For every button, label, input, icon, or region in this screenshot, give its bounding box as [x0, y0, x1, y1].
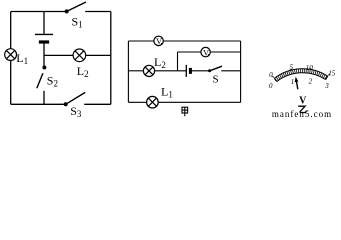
- scale numbers outer: [269, 64, 336, 79]
- svg-text:manfen5.com: manfen5.com: [272, 109, 332, 118]
- switch S2: [37, 66, 47, 89]
- wire middle row right of switch: [221, 70, 240, 72]
- wire top edge left of S1: [11, 11, 67, 13]
- wire V2 branch left: [178, 51, 202, 53]
- svg-text:L2: L2: [154, 55, 166, 70]
- svg-text:V: V: [203, 47, 210, 57]
- svg-text:V: V: [156, 36, 163, 46]
- wire left edge lower: [10, 61, 12, 105]
- svg-text:5: 5: [289, 64, 293, 72]
- meter needle: [295, 77, 299, 89]
- meter band end bars and major ticks: [272, 68, 329, 81]
- svg-text:L1: L1: [16, 51, 28, 66]
- svg-text:S1: S1: [72, 15, 83, 30]
- svg-text:L1: L1: [161, 84, 173, 99]
- meter scale band: [274, 69, 328, 82]
- svg-text:L2: L2: [77, 64, 89, 79]
- switch S3: [64, 92, 86, 106]
- label jia (drawn glyph): [182, 107, 188, 116]
- svg-text:10: 10: [306, 64, 314, 72]
- wire V2 riser: [177, 52, 179, 71]
- wire right edge: [110, 12, 112, 105]
- wire bottom edge right of L1: [158, 101, 241, 103]
- voltmeter V1: [154, 36, 163, 46]
- wire bottom edge left of S3: [11, 103, 66, 105]
- svg-text:S: S: [213, 74, 219, 86]
- wire top edge left of V1: [128, 40, 154, 42]
- wire left edge upper: [10, 12, 12, 49]
- battery B1: [35, 34, 53, 42]
- wire L2 branch left: [44, 54, 73, 56]
- lamp L2 (middle circuit): [143, 65, 154, 76]
- wire middle branch lower: [43, 91, 45, 105]
- svg-text:0: 0: [269, 71, 273, 79]
- wire top edge right of V1: [163, 40, 240, 42]
- svg-text:0: 0: [269, 82, 273, 90]
- lamp L1: [5, 49, 17, 61]
- voltmeter V2: [201, 47, 210, 57]
- wire V2 branch right: [210, 51, 240, 53]
- lamp L1 (middle circuit): [147, 96, 159, 108]
- svg-text:3: 3: [324, 82, 329, 90]
- wire bottom edge left of L1: [128, 101, 146, 103]
- lamp L2: [73, 49, 86, 62]
- wire top edge right of S1: [85, 11, 111, 13]
- wire battery top lead: [43, 12, 45, 34]
- wire middle row L2 to battery: [155, 70, 186, 72]
- svg-text:V: V: [299, 96, 307, 107]
- wire right edge: [240, 41, 242, 102]
- switch S1: [65, 2, 86, 13]
- label yi (drawn glyph): [298, 106, 306, 112]
- svg-text:S2: S2: [47, 74, 58, 89]
- svg-text:1: 1: [291, 78, 295, 86]
- svg-text:S3: S3: [70, 104, 82, 118]
- switch S: [208, 66, 222, 72]
- battery B2: [186, 65, 190, 77]
- scale numbers inner: [269, 78, 329, 91]
- svg-text:15: 15: [328, 70, 336, 78]
- wire left edge: [127, 41, 129, 102]
- wire middle row left: [128, 70, 143, 72]
- wire L2 branch right: [86, 54, 111, 56]
- wire bottom edge right of S3: [84, 103, 111, 105]
- wire middle row battery to switch: [191, 70, 209, 72]
- svg-text:2: 2: [309, 78, 313, 86]
- wire battery bottom lead to node: [43, 42, 45, 68]
